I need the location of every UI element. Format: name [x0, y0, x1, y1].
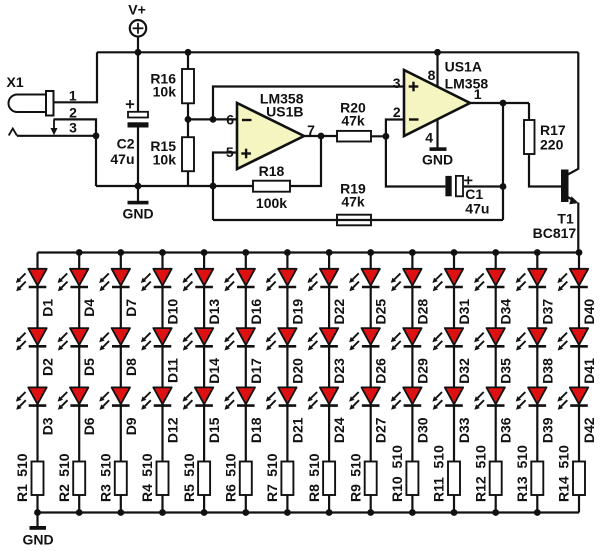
svg-text:D23: D23: [331, 358, 347, 384]
svg-text:510: 510: [223, 453, 239, 477]
wire: LED column 5 string: [203, 253, 205, 462]
svg-text:D39: D39: [539, 417, 555, 443]
svg-text:1: 1: [474, 86, 482, 102]
svg-text:47k: 47k: [341, 113, 365, 129]
wire: LED column 9 string: [370, 253, 372, 462]
svg-text:3: 3: [69, 119, 77, 135]
LED D16: [224, 269, 255, 291]
wire: pin5 to feedback node: [213, 153, 237, 221]
capacitor C2: [128, 112, 149, 128]
LED D1: [16, 269, 47, 291]
resistor R3: [115, 462, 127, 496]
wire: R16 to divider node: [187, 103, 189, 119]
wire: R19 line: [213, 219, 503, 221]
resistor R19: [337, 215, 371, 226]
wire: R1 to bottom rail: [36, 495, 38, 513]
LED D13: [183, 269, 214, 291]
svg-text:D40: D40: [581, 299, 597, 325]
wire: LED column 4 string: [161, 253, 163, 462]
LED D38: [516, 328, 547, 350]
junctions on bottom ground rail: [34, 509, 541, 516]
svg-text:3: 3: [393, 75, 401, 91]
wire: divider node to US1B pin 6: [188, 118, 237, 120]
wire: V+ symbol to rail: [137, 37, 139, 53]
LED D17: [224, 328, 255, 350]
svg-text:510: 510: [56, 453, 72, 477]
svg-text:X1: X1: [7, 74, 24, 90]
resistor R18: [253, 181, 290, 192]
svg-text:10k: 10k: [153, 151, 177, 167]
wire: R4 to bottom rail: [161, 495, 163, 513]
capacitor C1 polarity +: [464, 179, 472, 181]
LED D39: [516, 387, 547, 409]
wire: rail to C2: [137, 52, 139, 112]
svg-text:510: 510: [472, 445, 488, 469]
svg-text:D26: D26: [373, 358, 389, 384]
svg-text:D25: D25: [373, 299, 389, 325]
svg-text:10k: 10k: [153, 84, 177, 100]
LED D12: [141, 387, 172, 409]
svg-text:R9: R9: [347, 484, 363, 502]
wire: X1 pin 3 line: [17, 135, 96, 137]
wire: T1 emitter to LED rail: [577, 203, 579, 253]
svg-text:D29: D29: [414, 358, 430, 384]
power symbol V+: [128, 2, 146, 37]
wire: X1 down to ground rail: [95, 136, 97, 186]
wire: pin2 node down to C1: [386, 136, 446, 186]
wire: V+ supply rail: [97, 51, 578, 53]
wire: X1 pin 2 to node: [54, 119, 97, 135]
svg-text:4: 4: [425, 130, 433, 146]
svg-text:R4: R4: [139, 484, 155, 502]
wire: LED column 6 string: [245, 253, 247, 462]
LED D4: [58, 269, 89, 291]
svg-text:D4: D4: [81, 299, 97, 317]
svg-text:100k: 100k: [256, 195, 287, 211]
junction: divider midpoint: [185, 116, 192, 123]
resistor R2: [73, 462, 85, 496]
wire: divider node to R15: [187, 119, 189, 137]
wire: LED column 2 string: [78, 253, 80, 462]
wire: LED anode top rail: [38, 251, 580, 253]
LED D9: [99, 387, 130, 409]
LED D26: [349, 328, 380, 350]
svg-text:D15: D15: [206, 417, 222, 443]
svg-text:1: 1: [69, 87, 77, 103]
svg-text:R2: R2: [56, 484, 72, 502]
wire: LED column 1 string: [36, 253, 38, 462]
junction: C1 at output node: [500, 183, 507, 190]
LED D30: [391, 387, 422, 409]
LED D36: [474, 387, 505, 409]
svg-text:D20: D20: [289, 358, 305, 384]
LED D34: [474, 269, 505, 291]
wire: rail down to X1 pin 1: [54, 52, 98, 102]
resistor R17: [524, 120, 535, 154]
svg-text:D34: D34: [498, 299, 514, 325]
LED D37: [516, 269, 547, 291]
wire: R9 to bottom rail: [370, 495, 372, 513]
svg-text:D21: D21: [289, 417, 305, 443]
svg-text:GND: GND: [122, 205, 153, 221]
transistor T1: [561, 169, 579, 205]
wire: left ground rail to R18 and pin7 riser: [96, 136, 321, 186]
svg-text:R11: R11: [431, 477, 447, 502]
junction: C2/GND at ground rail: [135, 183, 142, 190]
wire: riser to US1A pin 3: [213, 87, 404, 120]
LED D42: [557, 387, 588, 409]
svg-text:C2: C2: [117, 135, 135, 151]
svg-text:220: 220: [540, 136, 564, 152]
svg-text:D28: D28: [414, 299, 430, 325]
LED D33: [432, 387, 463, 409]
svg-text:510: 510: [389, 445, 405, 469]
svg-text:510: 510: [514, 445, 530, 469]
ground symbol at C2: [122, 186, 153, 221]
svg-text:510: 510: [306, 453, 322, 477]
svg-text:D32: D32: [456, 358, 472, 384]
wire: LED column 10 string: [411, 253, 413, 462]
svg-text:47u: 47u: [110, 151, 134, 167]
wire: R3 to bottom rail: [120, 495, 122, 513]
wire: LED column 7 string: [286, 253, 288, 462]
LED D10: [141, 269, 172, 291]
svg-text:D30: D30: [414, 417, 430, 443]
wire: US1A pin 8 to rail: [436, 52, 438, 87]
wire: R17 to T1 base: [529, 154, 561, 187]
svg-text:BC817: BC817: [533, 225, 577, 241]
LED D24: [308, 387, 339, 409]
svg-text:7: 7: [307, 122, 315, 138]
svg-text:D33: D33: [456, 417, 472, 443]
resistor R15: [182, 137, 194, 171]
LED D22: [308, 269, 339, 291]
resistor R9: [365, 462, 377, 496]
svg-text:R1: R1: [14, 484, 30, 502]
junction: R16 at rail: [185, 49, 192, 56]
wire: R2 to bottom rail: [78, 495, 80, 513]
svg-text:D17: D17: [248, 358, 264, 384]
wire: R10 to bottom rail: [411, 495, 413, 513]
wire: bottom ground rail: [38, 511, 580, 513]
svg-text:LM358: LM358: [445, 75, 489, 91]
svg-text:R8: R8: [306, 484, 322, 502]
ground symbol at US1A pin 4: [422, 147, 453, 167]
svg-text:D22: D22: [331, 299, 347, 325]
LED D41: [557, 328, 588, 350]
resistor R8: [323, 462, 335, 496]
wire: T1 collector to V+ rail: [577, 52, 579, 169]
resistor R5: [198, 462, 210, 496]
svg-text:D37: D37: [539, 299, 555, 325]
wire: R11 to bottom rail: [453, 495, 455, 513]
LED D18: [224, 387, 255, 409]
resistor R14: [573, 462, 585, 496]
svg-text:D6: D6: [81, 417, 97, 435]
svg-text:D35: D35: [498, 358, 514, 384]
svg-text:D36: D36: [498, 417, 514, 443]
resistor R16: [182, 69, 194, 103]
junction: pin 8 at rail: [434, 49, 441, 56]
wire: R12 to bottom rail: [495, 495, 497, 513]
svg-text:GND: GND: [422, 152, 453, 168]
wire: C1 to output node: [463, 185, 503, 187]
LED D14: [183, 328, 214, 350]
resistor R11: [448, 462, 460, 496]
wire: R5 to bottom rail: [203, 495, 205, 513]
svg-text:US1A: US1A: [445, 59, 482, 75]
svg-text:D31: D31: [456, 299, 472, 325]
wire: US1A pin 4 to ground: [436, 119, 438, 148]
LED D7: [99, 269, 130, 291]
resistor R4: [157, 462, 169, 496]
resistor R13: [531, 462, 543, 496]
svg-text:D8: D8: [123, 358, 139, 376]
svg-text:GND: GND: [22, 532, 53, 548]
wire: R8 to bottom rail: [328, 495, 330, 513]
svg-text:D10: D10: [165, 299, 181, 325]
resistor R1: [32, 462, 44, 496]
wire: C2 to ground rail: [137, 128, 139, 187]
LED D2: [16, 328, 47, 350]
resistor R7: [281, 462, 293, 496]
svg-text:D11: D11: [165, 358, 181, 383]
svg-text:D16: D16: [248, 299, 264, 325]
svg-text:US1B: US1B: [266, 104, 303, 120]
svg-text:D3: D3: [40, 417, 56, 435]
LED D25: [349, 269, 380, 291]
LED D29: [391, 328, 422, 350]
wire: rail to R16: [187, 52, 189, 69]
LED D8: [99, 328, 130, 350]
svg-text:2: 2: [69, 105, 77, 121]
svg-text:R18: R18: [259, 163, 285, 179]
resistor R6: [240, 462, 252, 496]
svg-text:510: 510: [431, 445, 447, 469]
svg-text:D12: D12: [165, 417, 181, 443]
capacitor C2 polarity +: [126, 103, 134, 105]
svg-text:8: 8: [428, 67, 436, 83]
svg-text:D42: D42: [581, 417, 597, 443]
capacitor C1: [445, 176, 463, 196]
wire: R6 to bottom rail: [245, 495, 247, 513]
svg-text:D1: D1: [40, 299, 56, 317]
svg-text:D5: D5: [81, 358, 97, 376]
svg-text:V+: V+: [128, 2, 146, 18]
op-amp US1A: [404, 70, 470, 136]
LED D11: [141, 328, 172, 350]
resistor R20: [337, 131, 371, 142]
wire: US1A output: [470, 102, 529, 104]
svg-text:510: 510: [139, 453, 155, 477]
junction: tap to US1A pin 3: [210, 116, 217, 123]
svg-text:R13: R13: [514, 476, 530, 502]
wire: output node down to R19: [502, 103, 504, 220]
junction: X1 pins 2+3: [93, 132, 100, 139]
resistor R10: [406, 462, 418, 496]
junction: pin7 node: [318, 133, 325, 140]
wire: LED column 8 string: [328, 253, 330, 462]
wire: LED column 12 string: [495, 253, 497, 462]
svg-text:510: 510: [98, 453, 114, 477]
junction: pin2 node: [383, 133, 390, 140]
switch arrow of X1: [51, 119, 58, 135]
LED D19: [266, 269, 297, 291]
LED D31: [432, 269, 463, 291]
LED D20: [266, 328, 297, 350]
svg-text:R10: R10: [389, 476, 405, 502]
LED D35: [474, 328, 505, 350]
svg-text:D24: D24: [331, 417, 347, 443]
LED D32: [432, 328, 463, 350]
wire: LED column 14 string: [578, 253, 580, 462]
svg-text:6: 6: [226, 111, 234, 127]
svg-text:D27: D27: [373, 417, 389, 443]
LED D23: [308, 328, 339, 350]
op-amp US1B: [237, 103, 304, 169]
junction: output node: [500, 100, 507, 107]
svg-text:2: 2: [393, 104, 401, 120]
wire: US1B output pin 7: [304, 135, 337, 137]
svg-text:510: 510: [181, 453, 197, 477]
LED D5: [58, 328, 89, 350]
svg-text:D13: D13: [206, 299, 222, 325]
svg-text:D18: D18: [248, 417, 264, 443]
svg-text:D19: D19: [289, 299, 305, 325]
LED D15: [183, 387, 214, 409]
svg-text:47k: 47k: [341, 193, 365, 209]
svg-text:R6: R6: [223, 484, 239, 502]
svg-text:R3: R3: [98, 484, 114, 502]
wire: R13 to bottom rail: [536, 495, 538, 513]
svg-text:47u: 47u: [465, 200, 489, 216]
wire: R15 to ground rail: [187, 171, 189, 186]
resistor R12: [490, 462, 502, 496]
svg-text:510: 510: [556, 445, 572, 469]
svg-text:R7: R7: [264, 484, 280, 502]
svg-text:510: 510: [347, 453, 363, 477]
wire: LED column 13 string: [536, 253, 538, 462]
junctions on LED top rail: [76, 249, 583, 256]
wire: LED column 3 string: [120, 253, 122, 462]
wire: R20 to US1A pin 2: [371, 120, 404, 137]
svg-text:R5: R5: [181, 484, 197, 502]
wire: R7 to bottom rail: [286, 495, 288, 513]
svg-text:D9: D9: [123, 417, 139, 435]
connector X1 jack plug symbol: [8, 91, 53, 116]
LED D3: [16, 387, 47, 409]
svg-text:R12: R12: [472, 476, 488, 502]
wire: LED column 11 string: [453, 253, 455, 462]
wire: R14 to bottom rail: [578, 495, 580, 513]
junction: V+ at rail: [135, 49, 142, 56]
LED D28: [391, 269, 422, 291]
spring contact chevron of X1: [9, 129, 17, 136]
svg-text:D7: D7: [123, 299, 139, 317]
LED D6: [58, 387, 89, 409]
LED D40: [557, 269, 588, 291]
junction: R18/ground-rail/pin5 node: [210, 183, 217, 190]
svg-text:D38: D38: [539, 358, 555, 384]
LED D27: [349, 387, 380, 409]
svg-text:D2: D2: [40, 358, 56, 376]
wire: output to R17: [528, 103, 530, 120]
svg-text:D41: D41: [581, 358, 597, 384]
LED D21: [266, 387, 297, 409]
svg-text:D14: D14: [206, 358, 222, 384]
ground symbol at bottom rail: [22, 513, 53, 548]
svg-text:510: 510: [14, 453, 30, 477]
svg-text:510: 510: [264, 453, 280, 477]
svg-text:R14: R14: [556, 476, 572, 502]
